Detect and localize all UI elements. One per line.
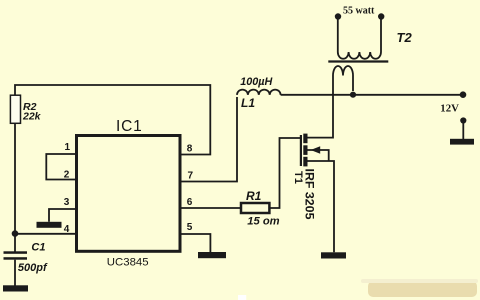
wire drain to transformer primary	[305, 76, 333, 138]
transistor T1 channel segments	[303, 134, 307, 167]
wire pin 7 to L1	[180, 97, 237, 182]
transformer T2 secondary winding	[338, 17, 381, 59]
watermark white patch	[238, 295, 246, 300]
svg-text:55 watt: 55 watt	[343, 6, 375, 17]
wire R2 top to pin 8 (top rail)	[15, 85, 210, 155]
ground (C1)	[3, 285, 28, 291]
terminal dot T2 secondary left	[335, 13, 341, 19]
capacitor C1	[4, 251, 28, 259]
inductor L1	[237, 90, 281, 95]
svg-text:22k: 22k	[22, 110, 42, 122]
transistor T1 gate bar	[300, 135, 302, 166]
wire R2 bottom to C1	[14, 123, 16, 251]
svg-text:12V: 12V	[440, 103, 459, 115]
node junction primary/rail	[350, 92, 356, 98]
svg-text:T1: T1	[292, 171, 304, 184]
svg-text:5: 5	[187, 222, 193, 233]
terminal dot 12V minus	[460, 117, 466, 123]
wire pin 4	[15, 233, 77, 235]
transformer T2 core	[328, 60, 388, 62]
resistor R1	[241, 203, 269, 213]
wire source to ground	[307, 161, 334, 252]
transformer T2 primary winding	[333, 66, 353, 91]
ground (T1 source)	[321, 252, 346, 258]
svg-text:2: 2	[64, 170, 70, 181]
resistor R2	[10, 95, 20, 123]
terminal dot 12V rail end	[460, 91, 467, 98]
svg-text:15 om: 15 om	[247, 216, 279, 228]
wire pin 6 to R1	[180, 207, 241, 209]
svg-text:IC1: IC1	[116, 118, 143, 135]
terminal dot T2 secondary right	[378, 13, 384, 19]
svg-text:C1: C1	[31, 242, 45, 254]
wire main 12V rail	[281, 94, 461, 96]
svg-text:1: 1	[65, 142, 71, 153]
ground (12V minus)	[450, 139, 474, 145]
ground (pin 3)	[37, 222, 62, 228]
watermark blob bottom right	[368, 281, 477, 297]
svg-text:500pf: 500pf	[18, 262, 48, 274]
svg-text:3: 3	[64, 197, 70, 208]
arrow of T1 body	[311, 146, 321, 154]
svg-text:UC3845: UC3845	[107, 257, 149, 269]
wire C1 to ground	[14, 260, 16, 286]
IC U1 IC1 (UC3845) body	[77, 136, 181, 252]
wire 12V minus to ground	[462, 121, 464, 140]
wire pin1-pin2 loop	[46, 154, 77, 180]
svg-text:7: 7	[188, 171, 194, 182]
wire body diode / arrow branch	[307, 150, 329, 161]
ground (pin 5)	[198, 252, 226, 258]
svg-text:100µH: 100µH	[240, 76, 272, 88]
svg-text:R1: R1	[246, 189, 262, 203]
wire R1 to gate	[269, 138, 300, 208]
svg-text:L1: L1	[241, 96, 255, 110]
svg-text:8: 8	[187, 144, 193, 155]
wire pin 3 to ground	[49, 209, 77, 222]
svg-text:6: 6	[187, 197, 193, 208]
svg-text:4: 4	[64, 224, 70, 235]
wire pin 5 to ground	[180, 234, 210, 252]
svg-text:IRF 3205: IRF 3205	[303, 169, 317, 220]
svg-text:T2: T2	[397, 30, 413, 45]
watermark light streak	[361, 279, 478, 283]
node junction R2/C1/pin4	[12, 230, 19, 237]
